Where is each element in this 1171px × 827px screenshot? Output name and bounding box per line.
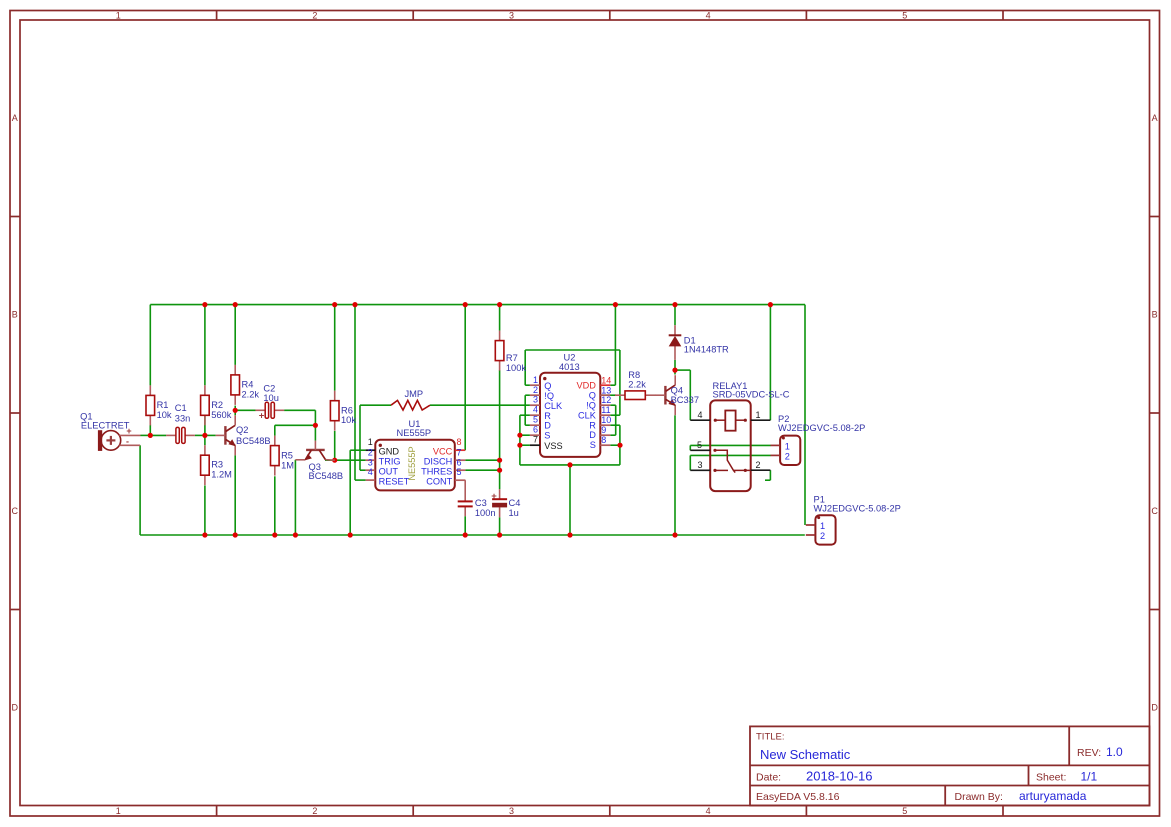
svg-text:1.0: 1.0 — [1106, 745, 1123, 759]
svg-text:1.2M: 1.2M — [211, 469, 232, 479]
svg-text:R5: R5 — [281, 451, 293, 461]
svg-text:NE555P: NE555P — [397, 428, 432, 438]
svg-text:GND: GND — [379, 447, 400, 457]
svg-text:ELECTRET: ELECTRET — [81, 421, 130, 431]
svg-text:TRIG: TRIG — [379, 457, 401, 467]
svg-text:A: A — [12, 113, 18, 123]
svg-text:3: 3 — [368, 457, 373, 467]
svg-text:THRES: THRES — [421, 466, 452, 476]
svg-text:2: 2 — [820, 531, 825, 541]
svg-text:5: 5 — [697, 440, 702, 450]
svg-text:13: 13 — [601, 385, 611, 395]
svg-text:11: 11 — [601, 405, 610, 415]
svg-text:VCC: VCC — [433, 447, 453, 457]
svg-text:5: 5 — [902, 10, 907, 20]
svg-text:1/1: 1/1 — [1081, 769, 1098, 783]
svg-text:1N4148TR: 1N4148TR — [684, 344, 729, 354]
svg-text:R7: R7 — [506, 353, 518, 363]
svg-text:RESET: RESET — [379, 476, 410, 486]
svg-text:arturyamada: arturyamada — [1019, 789, 1087, 803]
svg-text:D: D — [1151, 703, 1158, 713]
svg-text:TITLE:: TITLE: — [756, 731, 785, 742]
svg-text:OUT: OUT — [379, 466, 399, 476]
svg-text:Sheet:: Sheet: — [1036, 771, 1066, 783]
svg-text:C4: C4 — [509, 498, 521, 508]
svg-text:D: D — [544, 421, 551, 431]
svg-text:2: 2 — [368, 447, 373, 457]
svg-text:1M: 1M — [281, 460, 294, 470]
svg-text:7: 7 — [457, 447, 462, 457]
svg-text:C: C — [12, 506, 19, 516]
svg-text:WJ2EDGVC-5.08-2P: WJ2EDGVC-5.08-2P — [778, 423, 865, 433]
svg-text:33n: 33n — [175, 414, 191, 424]
svg-text:CONT: CONT — [426, 476, 452, 486]
svg-text:1: 1 — [755, 410, 760, 420]
svg-text:8: 8 — [601, 435, 606, 445]
svg-text:CLK: CLK — [578, 410, 597, 420]
svg-text:2: 2 — [533, 385, 538, 395]
svg-text:R1: R1 — [157, 400, 169, 410]
svg-text:C: C — [1151, 506, 1158, 516]
svg-text:3: 3 — [533, 395, 538, 405]
svg-text:WJ2EDGVC-5.08-2P: WJ2EDGVC-5.08-2P — [814, 504, 901, 514]
svg-text:C3: C3 — [475, 498, 487, 508]
svg-text:14: 14 — [601, 375, 611, 385]
svg-text:REV:: REV: — [1077, 747, 1101, 759]
svg-text:5: 5 — [533, 415, 538, 425]
svg-text:10u: 10u — [263, 393, 279, 403]
svg-text:100k: 100k — [506, 363, 527, 373]
svg-text:C2: C2 — [263, 383, 275, 393]
svg-text:1: 1 — [820, 521, 825, 531]
svg-text:!Q: !Q — [544, 391, 554, 401]
svg-text:VDD: VDD — [576, 381, 596, 391]
svg-text:R2: R2 — [211, 400, 223, 410]
svg-text:S: S — [590, 440, 596, 450]
svg-text:1: 1 — [533, 375, 538, 385]
svg-text:Drawn By:: Drawn By: — [955, 791, 1003, 803]
svg-text:BC548B: BC548B — [236, 436, 271, 446]
svg-text:B: B — [12, 310, 18, 320]
svg-text:R8: R8 — [628, 370, 640, 380]
svg-text:D: D — [589, 430, 596, 440]
svg-text:BC548B: BC548B — [309, 471, 344, 481]
svg-text:DISCH: DISCH — [424, 457, 453, 467]
svg-text:!Q: !Q — [586, 401, 596, 411]
svg-text:2: 2 — [312, 806, 317, 816]
svg-text:D: D — [12, 703, 19, 713]
svg-text:+: + — [259, 411, 265, 422]
svg-text:BC337: BC337 — [671, 395, 699, 405]
svg-text:3: 3 — [509, 10, 514, 20]
svg-text:R: R — [589, 420, 596, 430]
svg-text:2: 2 — [755, 460, 760, 470]
svg-text:+: + — [491, 491, 497, 502]
svg-text:4: 4 — [706, 10, 711, 20]
svg-text:10k: 10k — [157, 410, 172, 420]
svg-text:2: 2 — [312, 10, 317, 20]
svg-text:R6: R6 — [341, 405, 353, 415]
svg-text:6: 6 — [533, 424, 538, 434]
svg-text:New Schematic: New Schematic — [760, 747, 851, 762]
svg-text:2: 2 — [785, 451, 790, 461]
svg-text:1: 1 — [116, 10, 121, 20]
svg-text:4: 4 — [706, 806, 711, 816]
svg-text:3: 3 — [509, 806, 514, 816]
svg-text:1: 1 — [116, 806, 121, 816]
svg-text:100n: 100n — [475, 508, 496, 518]
svg-text:1: 1 — [785, 441, 790, 451]
svg-text:JMP: JMP — [405, 389, 424, 399]
svg-text:C1: C1 — [175, 403, 187, 413]
svg-text:2.2k: 2.2k — [242, 390, 260, 400]
svg-text:2.2k: 2.2k — [628, 380, 646, 390]
svg-text:Date:: Date: — [756, 771, 781, 783]
svg-text:Q: Q — [544, 381, 551, 391]
svg-text:7: 7 — [533, 434, 538, 444]
svg-text:10k: 10k — [341, 415, 356, 425]
svg-text:VSS: VSS — [544, 441, 562, 451]
svg-text:1: 1 — [368, 437, 373, 447]
svg-text:R4: R4 — [242, 380, 254, 390]
svg-text:8: 8 — [457, 437, 462, 447]
svg-text:1u: 1u — [509, 508, 519, 518]
svg-text:NE555P: NE555P — [407, 446, 417, 480]
svg-text:5: 5 — [457, 467, 462, 477]
svg-text:R: R — [544, 411, 551, 421]
svg-text:SRD-05VDC-SL-C: SRD-05VDC-SL-C — [713, 390, 790, 400]
svg-text:Q2: Q2 — [236, 425, 248, 435]
svg-text:12: 12 — [601, 395, 611, 405]
svg-text:560k: 560k — [211, 410, 232, 420]
svg-text:3: 3 — [697, 460, 702, 470]
svg-text:A: A — [1152, 113, 1158, 123]
svg-text:6: 6 — [457, 457, 462, 467]
svg-text:4: 4 — [368, 467, 373, 477]
svg-text:S: S — [544, 431, 550, 441]
svg-text:2018-10-16: 2018-10-16 — [806, 768, 873, 783]
svg-text:B: B — [1152, 310, 1158, 320]
svg-text:9: 9 — [601, 425, 606, 435]
svg-text:4: 4 — [697, 410, 702, 420]
svg-text:-: - — [126, 437, 129, 447]
svg-text:R3: R3 — [211, 460, 223, 470]
svg-text:5: 5 — [902, 806, 907, 816]
svg-text:4013: 4013 — [559, 362, 580, 372]
svg-text:CLK: CLK — [544, 401, 563, 411]
svg-text:Q: Q — [589, 391, 596, 401]
svg-text:4: 4 — [533, 405, 538, 415]
svg-text:10: 10 — [601, 415, 611, 425]
svg-text:EasyEDA V5.8.16: EasyEDA V5.8.16 — [756, 791, 840, 803]
